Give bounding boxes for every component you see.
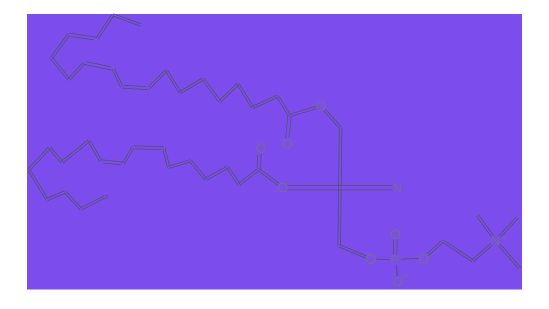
svg-text:N: N [394, 184, 402, 196]
svg-text:P: P [391, 255, 399, 267]
svg-text:N: N [492, 236, 500, 248]
svg-text:+: + [502, 232, 507, 242]
